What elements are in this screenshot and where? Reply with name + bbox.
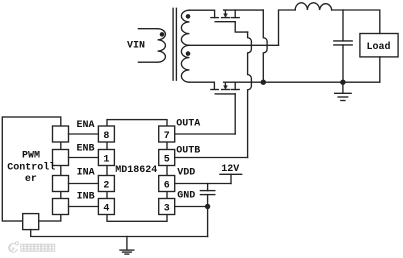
svg-text:OUTB: OUTB bbox=[176, 145, 200, 156]
svg-text:12V: 12V bbox=[221, 164, 239, 175]
svg-text:ENA: ENA bbox=[77, 120, 95, 131]
svg-text:INB: INB bbox=[77, 192, 95, 203]
svg-text:VIN: VIN bbox=[127, 41, 145, 52]
svg-text:3: 3 bbox=[164, 203, 170, 214]
svg-text:VDD: VDD bbox=[177, 168, 195, 179]
svg-text:INA: INA bbox=[77, 168, 95, 179]
svg-text:5: 5 bbox=[164, 154, 170, 165]
svg-text:Controll: Controll bbox=[7, 161, 55, 173]
svg-text:1: 1 bbox=[103, 154, 109, 165]
svg-text:Load: Load bbox=[367, 41, 391, 53]
svg-text:OUTA: OUTA bbox=[176, 118, 200, 129]
svg-text:6: 6 bbox=[164, 180, 170, 191]
svg-text:8: 8 bbox=[103, 131, 109, 142]
svg-text:2: 2 bbox=[103, 180, 109, 191]
svg-text:PWM: PWM bbox=[22, 150, 40, 161]
svg-text:GND: GND bbox=[177, 191, 195, 202]
svg-text:MD18624: MD18624 bbox=[115, 165, 157, 176]
svg-text:ENB: ENB bbox=[77, 143, 95, 154]
svg-text:7: 7 bbox=[164, 131, 170, 142]
svg-text:er: er bbox=[25, 174, 37, 185]
svg-text:4: 4 bbox=[103, 203, 109, 214]
